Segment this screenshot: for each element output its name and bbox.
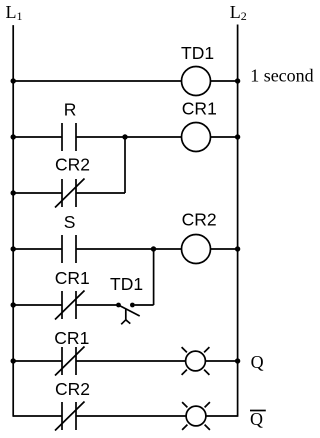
svg-text:R: R xyxy=(64,99,77,119)
contact CR2 (normally closed) rung 5 xyxy=(55,402,85,431)
wire rung 3 right xyxy=(211,248,238,250)
wire rung 3b right xyxy=(135,304,154,306)
svg-text:Q: Q xyxy=(250,409,263,429)
junction dot rung 3 branch xyxy=(151,246,156,251)
branch wire rung 2b to rung 2 xyxy=(124,137,126,193)
coil CR1 xyxy=(182,123,211,152)
svg-text:1 second: 1 second xyxy=(250,66,313,86)
junction dot rung 3 right rail xyxy=(235,246,240,251)
wire rung 3b middle xyxy=(76,304,117,306)
junction dot rung 4 left rail xyxy=(11,358,16,363)
power rail L1 xyxy=(12,25,14,417)
wire rung 2b left xyxy=(13,192,62,194)
svg-text:TD1: TD1 xyxy=(110,274,143,294)
wire rung 3 middle xyxy=(76,248,182,250)
power rail L2 xyxy=(237,25,239,417)
contact R (normally open) xyxy=(62,123,76,151)
svg-text:Q: Q xyxy=(251,352,264,372)
svg-text:TD1: TD1 xyxy=(181,43,214,63)
wire rung 3 left xyxy=(13,248,62,250)
junction dot rung 1 right rail xyxy=(235,78,240,83)
wire rung 5 left xyxy=(13,415,62,417)
coil TD1 xyxy=(182,67,211,96)
wire rung 3b left xyxy=(13,304,62,306)
junction dot rung 3b left rail xyxy=(11,302,16,307)
wire rung 1 left xyxy=(13,80,181,82)
junction dot rung 3 left rail xyxy=(11,246,16,251)
svg-text:CR1: CR1 xyxy=(182,99,217,119)
lamp Q xyxy=(182,347,210,375)
wire rung 4 right xyxy=(205,360,237,362)
svg-text:S: S xyxy=(64,212,76,232)
svg-text:CR1: CR1 xyxy=(54,328,89,348)
contact S (normally open) xyxy=(62,235,76,263)
contact CR2 (normally closed) xyxy=(55,179,85,208)
junction dot rung 1 left rail xyxy=(11,78,16,83)
svg-text:CR1: CR1 xyxy=(55,268,90,288)
wire rung 4 middle xyxy=(76,360,186,362)
wire rung 2b right xyxy=(76,192,125,194)
contact CR1 (normally closed) rung 4 xyxy=(55,347,85,376)
lamp Q-bar xyxy=(182,402,210,430)
svg-text:L2: L2 xyxy=(230,2,247,23)
wire rung 2 middle xyxy=(76,136,182,138)
contact CR1 (normally closed) xyxy=(55,291,85,320)
wire rung 2 left xyxy=(13,136,62,138)
svg-text:CR2: CR2 xyxy=(55,154,90,174)
wire rung 5 middle xyxy=(76,415,186,417)
wire rung 4 left xyxy=(13,360,62,362)
junction dot rung 2 right rail xyxy=(235,134,240,139)
junction dot rung 2 left rail xyxy=(11,134,16,139)
wire rung 2 right xyxy=(211,136,238,138)
junction dot rung 4 right rail xyxy=(235,358,240,363)
junction dot rung 2b left rail xyxy=(11,190,16,195)
timed contact TD1 (normally open timed closed) xyxy=(116,303,140,325)
wire rung 1 right xyxy=(211,80,238,82)
junction dot rung 2 branch xyxy=(122,134,127,139)
overbar of label Q-bar xyxy=(250,410,266,412)
branch wire rung 3b to rung 3 xyxy=(153,249,155,305)
svg-text:CR2: CR2 xyxy=(55,379,90,399)
svg-text:L1: L1 xyxy=(6,2,23,23)
svg-text:CR2: CR2 xyxy=(182,209,217,229)
coil CR2 xyxy=(182,235,211,264)
wire rung 5 right xyxy=(206,415,238,417)
